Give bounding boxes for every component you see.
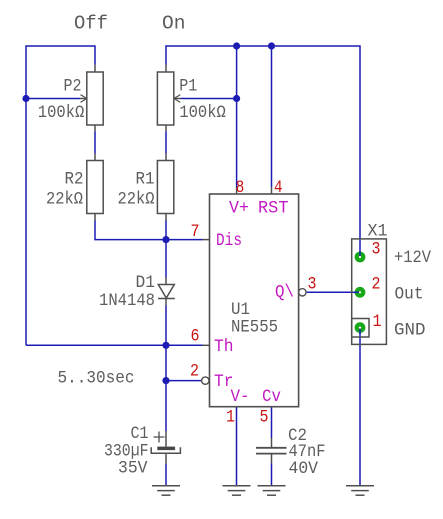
pin3 inverted circle: [299, 289, 306, 296]
wire Th line: [26, 344, 203, 346]
junction dot pin4 rail: [268, 42, 275, 49]
wire top-left rail Off: [26, 46, 95, 345]
X1 pad 2: [355, 287, 366, 298]
svg-text:NE555: NE555: [231, 318, 278, 338]
op-amp U1 NE555 body: [210, 194, 299, 407]
wire pin8 vertical: [236, 46, 238, 187]
potentiometer P1: [157, 65, 181, 132]
wire P1 wiper: [181, 98, 237, 100]
svg-text:100kΩ: 100kΩ: [38, 103, 85, 123]
svg-text:5..30sec: 5..30sec: [58, 369, 135, 389]
junction dot Tr: [162, 377, 169, 384]
ground X1: [346, 486, 374, 496]
wire pin5 Cv to C2: [271, 407, 273, 438]
svg-text:Q\: Q\: [275, 282, 294, 302]
wire P2 wiper from left rail: [26, 98, 80, 100]
svg-text:V-: V-: [231, 387, 250, 407]
pin6 stub: [203, 344, 210, 346]
ground V-: [223, 486, 251, 496]
svg-text:RST: RST: [258, 199, 289, 219]
wire node7 to diode: [165, 240, 167, 278]
svg-text:Out: Out: [395, 284, 424, 304]
ground C1: [152, 486, 180, 496]
junction dot Th: [162, 342, 169, 349]
junction dot pin8 rail: [233, 42, 240, 49]
wire X1 pin1 to ground: [359, 328, 361, 486]
svg-text:R1: R1: [136, 170, 155, 190]
wire Tr line: [166, 380, 202, 382]
svg-text:1N4148: 1N4148: [99, 291, 155, 311]
wire Tr node to C1: [165, 381, 167, 431]
svg-text:35V: 35V: [118, 459, 148, 479]
wire R2 bottom to node7: [95, 221, 166, 240]
junction dot P2 wiper: [22, 95, 29, 102]
svg-text:V+: V+: [229, 199, 249, 219]
X1 pad 1: [355, 322, 366, 333]
wire C2 to ground: [271, 464, 273, 486]
X1 pin1 square: [352, 319, 369, 338]
wire node7 to Dis pin: [166, 239, 203, 241]
svg-text:5: 5: [260, 408, 269, 428]
ground C2: [258, 486, 286, 496]
resistor R1: [157, 154, 173, 221]
svg-text:2: 2: [190, 362, 199, 382]
connector X1: [352, 239, 387, 345]
wire P2 to R2: [94, 132, 96, 154]
svg-text:7: 7: [191, 222, 200, 242]
wire Th node to Tr node: [165, 345, 167, 380]
svg-text:D1: D1: [136, 273, 156, 293]
svg-text:GND: GND: [394, 320, 426, 340]
C1 plus sign: [154, 432, 165, 443]
pin2 inverted circle: [202, 377, 209, 384]
svg-text:6: 6: [191, 327, 200, 347]
X1 pad 3: [355, 252, 366, 263]
potentiometer P2: [80, 65, 103, 132]
svg-text:3: 3: [308, 275, 317, 295]
pin7 stub: [203, 239, 210, 241]
svg-text:3: 3: [372, 240, 381, 260]
wire P1 to R1: [165, 132, 167, 154]
pin4 stub: [271, 187, 273, 194]
svg-text:4: 4: [274, 178, 283, 198]
capacitor C1: [151, 431, 180, 464]
capacitor C2: [256, 438, 287, 464]
svg-text:P2: P2: [64, 77, 82, 97]
resistor R2: [87, 154, 103, 221]
svg-text:Cv: Cv: [262, 387, 281, 407]
wire diode to Th node: [165, 306, 167, 346]
wire R1 bottom to node7: [165, 221, 167, 240]
wire top rail On: [166, 46, 360, 257]
svg-text:1: 1: [226, 408, 235, 428]
wire Q output to X1 pin2: [306, 291, 361, 293]
svg-text:Th: Th: [214, 337, 234, 357]
svg-text:P1: P1: [179, 77, 197, 97]
svg-text:+12V: +12V: [394, 248, 431, 268]
diode D1: [158, 278, 175, 306]
junction dot P1 wiper: [233, 95, 240, 102]
svg-text:100kΩ: 100kΩ: [179, 103, 226, 123]
svg-text:Dis: Dis: [216, 231, 242, 251]
svg-text:R2: R2: [65, 170, 84, 190]
svg-text:8: 8: [236, 178, 245, 198]
C1 top plate: [157, 447, 175, 451]
svg-text:22kΩ: 22kΩ: [118, 190, 155, 210]
svg-text:On: On: [162, 13, 186, 35]
svg-text:Off: Off: [74, 13, 108, 35]
svg-text:X1: X1: [368, 221, 388, 241]
svg-text:40V: 40V: [289, 459, 319, 479]
wire pin1 V- to ground: [236, 407, 238, 486]
svg-text:2: 2: [372, 275, 381, 295]
svg-text:22kΩ: 22kΩ: [46, 190, 83, 210]
junction dot node7: [162, 236, 169, 243]
pin8 stub: [236, 187, 238, 194]
wire pin4 vertical: [271, 46, 273, 187]
wire C1 to ground: [165, 464, 167, 486]
svg-text:1: 1: [373, 312, 382, 332]
